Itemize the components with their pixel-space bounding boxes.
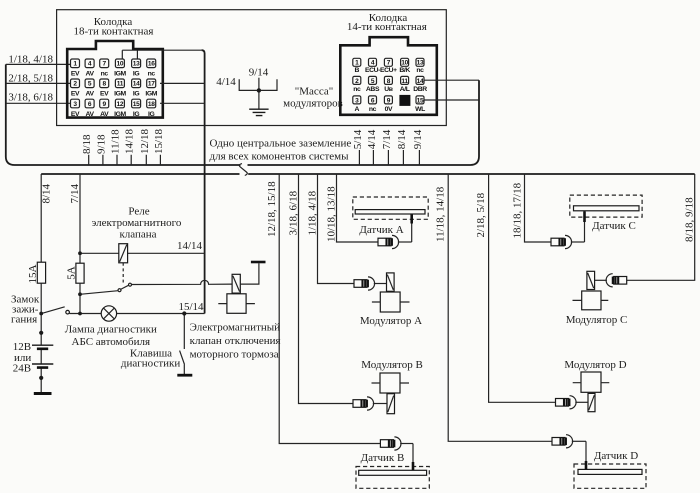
svg-text:AV: AV: [100, 111, 109, 118]
svg-text:Модулятор C: Модулятор C: [566, 314, 628, 326]
svg-text:модуляторов: модуляторов: [283, 98, 343, 110]
svg-text:для всех комонентов системы: для всех комонентов системы: [210, 151, 350, 163]
svg-text:15/18: 15/18: [153, 128, 165, 154]
svg-text:"Масса": "Масса": [295, 86, 333, 98]
svg-text:13: 13: [133, 61, 140, 68]
svg-text:11: 11: [401, 78, 408, 85]
svg-text:3/18, 6/18: 3/18, 6/18: [8, 92, 53, 104]
svg-text:IG: IG: [133, 91, 139, 98]
svg-text:5/14: 5/14: [352, 129, 364, 149]
svg-text:11/18: 11/18: [110, 129, 122, 154]
svg-text:14-ти контактная: 14-ти контактная: [347, 21, 427, 33]
svg-text:Модулятор A: Модулятор A: [360, 315, 422, 327]
svg-text:8/14: 8/14: [396, 129, 408, 149]
svg-text:16: 16: [148, 61, 155, 68]
svg-text:8/18, 9/18: 8/18, 9/18: [684, 197, 696, 242]
svg-text:WL: WL: [415, 106, 425, 113]
svg-text:Лампа диагностики: Лампа диагностики: [65, 324, 157, 336]
svg-text:IGM: IGM: [145, 91, 157, 98]
svg-text:8/14: 8/14: [40, 183, 52, 203]
svg-text:18-ти контактная: 18-ти контактная: [74, 26, 154, 38]
svg-text:7/14: 7/14: [381, 129, 393, 149]
svg-text:8/18: 8/18: [81, 134, 93, 154]
svg-text:4/14: 4/14: [366, 129, 378, 149]
svg-text:3/18, 6/18: 3/18, 6/18: [288, 190, 300, 235]
svg-text:11/18, 14/18: 11/18, 14/18: [435, 186, 447, 242]
svg-text:11: 11: [117, 81, 124, 88]
svg-text:Модулятор D: Модулятор D: [564, 359, 626, 371]
svg-text:моторного тормоза: моторного тормоза: [190, 349, 279, 361]
svg-text:IGM: IGM: [114, 91, 126, 98]
svg-text:B: B: [355, 67, 360, 74]
svg-text:nc: nc: [353, 86, 361, 93]
svg-text:IG: IG: [133, 111, 139, 118]
svg-text:EV: EV: [71, 111, 80, 118]
svg-text:1/18, 4/18: 1/18, 4/18: [307, 190, 319, 235]
svg-text:AV: AV: [86, 71, 95, 78]
svg-text:клапана: клапана: [119, 229, 156, 241]
svg-text:10: 10: [401, 60, 408, 67]
svg-text:15: 15: [417, 97, 424, 104]
svg-text:14: 14: [417, 78, 424, 85]
svg-text:nc: nc: [148, 71, 156, 78]
svg-text:IGM: IGM: [114, 71, 126, 78]
svg-text:nc: nc: [101, 71, 109, 78]
svg-text:Реле: Реле: [128, 206, 149, 218]
svg-text:4/14: 4/14: [216, 76, 236, 88]
svg-text:ECU-: ECU-: [365, 67, 380, 74]
svg-text:AV: AV: [86, 91, 95, 98]
svg-text:AV: AV: [86, 111, 95, 118]
svg-text:12: 12: [117, 101, 124, 108]
svg-text:9/14: 9/14: [249, 67, 269, 79]
svg-text:9/14: 9/14: [412, 129, 424, 149]
svg-text:Uв: Uв: [384, 86, 393, 93]
svg-text:14: 14: [133, 81, 140, 88]
svg-text:10: 10: [117, 61, 124, 68]
svg-text:2/18, 5/18: 2/18, 5/18: [8, 73, 53, 85]
svg-text:A/L: A/L: [400, 86, 410, 93]
svg-text:12/18: 12/18: [139, 128, 151, 154]
svg-text:АБС автомобиля: АБС автомобиля: [72, 336, 151, 348]
svg-text:Датчик A: Датчик A: [359, 224, 403, 236]
svg-text:Датчик C: Датчик C: [592, 220, 636, 232]
svg-text:гания: гания: [11, 314, 37, 326]
svg-text:ABS: ABS: [366, 86, 380, 93]
svg-text:IGM: IGM: [114, 111, 126, 118]
svg-text:B/K: B/K: [399, 67, 410, 74]
svg-text:nc: nc: [416, 67, 424, 74]
svg-text:Одно центральное заземление: Одно центральное заземление: [210, 138, 352, 150]
svg-text:Электромагнитный: Электромагнитный: [190, 322, 281, 334]
svg-text:7/14: 7/14: [69, 183, 81, 203]
svg-text:IG: IG: [148, 111, 154, 118]
svg-text:5А: 5А: [65, 266, 77, 280]
svg-text:24В: 24В: [13, 363, 31, 375]
svg-text:клапан отключения: клапан отключения: [190, 335, 281, 347]
svg-text:Датчик B: Датчик B: [361, 452, 405, 464]
svg-text:nc: nc: [369, 106, 377, 113]
svg-text:диагностики: диагностики: [121, 358, 180, 370]
svg-text:2/18, 5/18: 2/18, 5/18: [475, 192, 487, 237]
svg-text:A: A: [355, 106, 360, 113]
svg-text:14/18: 14/18: [124, 128, 136, 154]
svg-text:EV: EV: [100, 91, 109, 98]
svg-text:12/18, 15/18: 12/18, 15/18: [266, 181, 278, 237]
svg-text:18/18, 17/18: 18/18, 17/18: [512, 182, 524, 238]
svg-text:9/18: 9/18: [95, 134, 107, 154]
svg-text:EV: EV: [71, 91, 80, 98]
svg-text:13: 13: [417, 60, 424, 67]
svg-text:DBR: DBR: [413, 86, 427, 93]
svg-text:0V: 0V: [385, 106, 393, 113]
svg-text:14/14: 14/14: [177, 240, 203, 252]
svg-text:1/18, 4/18: 1/18, 4/18: [8, 54, 53, 66]
svg-text:Модулятор B: Модулятор B: [361, 359, 423, 371]
svg-text:18: 18: [148, 101, 155, 108]
svg-text:EV: EV: [71, 71, 80, 78]
svg-text:10/18, 13/18: 10/18, 13/18: [326, 186, 338, 242]
svg-text:IG: IG: [133, 71, 139, 78]
svg-text:ECU+: ECU+: [380, 67, 397, 74]
svg-text:15/14: 15/14: [179, 301, 205, 313]
svg-text:15А: 15А: [27, 265, 39, 284]
svg-text:15: 15: [133, 101, 140, 108]
svg-text:Датчик D: Датчик D: [594, 450, 638, 462]
svg-text:17: 17: [148, 81, 155, 88]
svg-text:электромагнитного: электромагнитного: [92, 217, 182, 229]
